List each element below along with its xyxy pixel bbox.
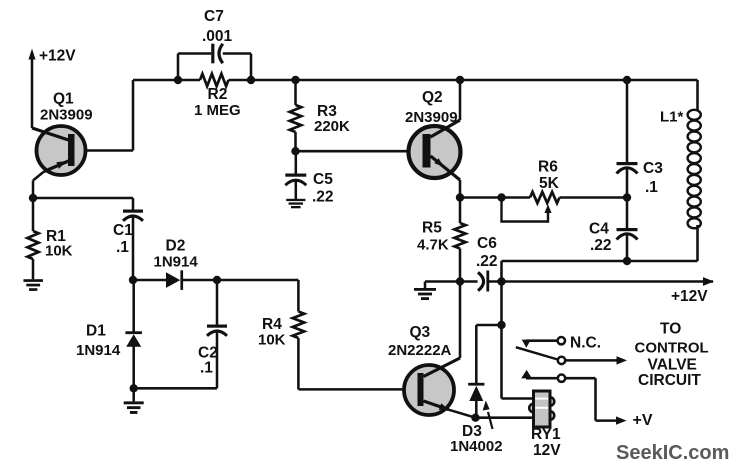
svg-text:.22: .22: [476, 253, 498, 270]
svg-text:C5: C5: [313, 171, 333, 188]
svg-text:.1: .1: [116, 239, 129, 256]
svg-text:2N3909: 2N3909: [40, 107, 93, 124]
svg-text:C4: C4: [589, 221, 609, 238]
svg-text:.001: .001: [202, 28, 233, 45]
svg-text:R4: R4: [262, 316, 282, 333]
svg-text:L1*: L1*: [660, 109, 684, 126]
svg-text:D1: D1: [86, 323, 106, 340]
svg-text:VALVE: VALVE: [648, 357, 697, 374]
svg-text:CIRCUIT: CIRCUIT: [638, 372, 701, 389]
svg-text:Q1: Q1: [53, 91, 74, 108]
svg-text:1N4002: 1N4002: [450, 438, 503, 455]
svg-text:5K: 5K: [539, 175, 560, 192]
svg-text:CONTROL: CONTROL: [635, 340, 709, 357]
svg-text:+V: +V: [633, 412, 653, 429]
svg-text:+12V: +12V: [39, 48, 76, 65]
svg-text:D2: D2: [166, 238, 186, 255]
svg-text:R2: R2: [208, 86, 228, 103]
svg-text:2N3909: 2N3909: [405, 109, 458, 126]
svg-text:220K: 220K: [314, 118, 350, 135]
svg-text:Q3: Q3: [410, 324, 431, 341]
svg-text:.22: .22: [590, 237, 612, 254]
svg-text:1N914: 1N914: [76, 342, 121, 359]
svg-text:RY1: RY1: [531, 426, 561, 443]
svg-text:4.7K: 4.7K: [417, 237, 449, 254]
svg-text:.22: .22: [312, 189, 334, 206]
svg-text:1N914: 1N914: [154, 254, 199, 271]
svg-text:2N2222A: 2N2222A: [388, 342, 452, 359]
svg-text:C7: C7: [204, 8, 224, 25]
svg-text:TO: TO: [660, 321, 681, 338]
svg-text:10K: 10K: [258, 332, 286, 349]
svg-text:R6: R6: [538, 159, 558, 176]
svg-text:.1: .1: [200, 360, 213, 377]
svg-text:SeekIC.com: SeekIC.com: [616, 442, 729, 464]
svg-text:10K: 10K: [45, 243, 73, 260]
svg-text:+12V: +12V: [671, 288, 708, 305]
svg-text:R5: R5: [422, 220, 442, 237]
svg-text:.1: .1: [645, 179, 658, 196]
svg-text:1 MEG: 1 MEG: [194, 102, 241, 119]
svg-text:12V: 12V: [533, 442, 561, 459]
svg-text:C3: C3: [643, 160, 663, 177]
svg-text:N.C.: N.C.: [570, 335, 601, 352]
svg-text:Q2: Q2: [422, 89, 443, 106]
svg-text:C6: C6: [477, 235, 497, 252]
svg-text:C1: C1: [113, 222, 133, 239]
